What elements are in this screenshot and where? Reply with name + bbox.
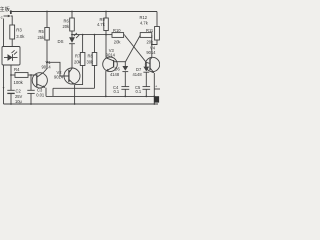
terminal nub left end of rail: [10, 10, 12, 14]
svg-text:R10: R10: [113, 28, 121, 33]
wire left vertical from connector to opto box: [3, 19, 5, 47]
svg-text:D7: D7: [136, 67, 142, 72]
capacitor C3: [27, 75, 34, 104]
wire bottom ground rail: [4, 103, 159, 105]
node dot C4 bottom: [124, 96, 126, 98]
node dot rail/R6: [71, 11, 73, 13]
svg-text:D6: D6: [115, 67, 121, 72]
wire drop to mid rail: [52, 88, 54, 96]
wire DS to V2 collector: [71, 44, 73, 69]
svg-text:20k: 20k: [147, 40, 155, 45]
node dot ground V4 emitter: [153, 103, 155, 105]
resistor R12: [152, 12, 160, 45]
wire opto box left pin to ground rail: [3, 65, 5, 104]
svg-text:3.0k: 3.0k: [16, 34, 25, 39]
node dot R8 top: [94, 34, 96, 36]
label R4 100k: [14, 67, 24, 85]
transistor V3: [103, 57, 126, 72]
node dot V3 emitter: [105, 96, 107, 98]
svg-text:20k: 20k: [74, 60, 82, 65]
resistor R6: [70, 12, 75, 35]
label C3 0.01: [36, 88, 45, 98]
node dot C3 junction: [30, 74, 32, 76]
node dot V2 emitter ground: [74, 103, 76, 105]
label C5 0.1: [135, 85, 142, 94]
resistor R9: [104, 12, 109, 58]
svg-text:9014: 9014: [106, 53, 116, 58]
svg-text:25k: 25k: [38, 35, 46, 40]
svg-text:0.1: 0.1: [136, 89, 142, 94]
svg-text:0.1: 0.1: [114, 89, 120, 94]
wire mid bias rail: [72, 34, 106, 36]
node dot V1 collector / V2 base: [46, 61, 48, 63]
node dot rail/R9: [105, 11, 107, 13]
svg-text:20k: 20k: [63, 24, 71, 29]
node dot ground C2: [10, 103, 12, 105]
transistor V4: [145, 57, 159, 73]
resistor R11: [140, 33, 152, 58]
node dot C2 junction: [10, 74, 12, 76]
label R9 4.7k: [97, 17, 106, 27]
svg-text:4148: 4148: [110, 72, 120, 77]
label R11 20k: [146, 28, 154, 44]
diode D6: [122, 62, 128, 87]
wire V3 emitter to mid ground rail: [105, 71, 107, 96]
svg-text:R5: R5: [39, 29, 45, 34]
wire V2 emitter to R7 bottom: [75, 66, 83, 85]
resistor R4: [11, 73, 34, 78]
wire mid ground rail: [46, 95, 154, 97]
svg-text:0.01: 0.01: [36, 93, 45, 98]
label R3 3.0k: [16, 28, 25, 39]
wire V1 collector to V2 base: [47, 62, 69, 76]
wire cross coupling R11 to D6/V3 base: [125, 35, 140, 62]
battery terminal mark right edge: [154, 84, 160, 102]
wire V2 emitter to ground rail: [74, 85, 76, 104]
svg-text:R7: R7: [75, 54, 81, 59]
svg-text:R12: R12: [140, 15, 148, 20]
label V1 9014: [42, 60, 52, 70]
svg-text:20k: 20k: [114, 40, 122, 45]
capacitor C2 electrolytic: [7, 75, 14, 104]
svg-text:4.7k: 4.7k: [140, 21, 149, 26]
wire emitter net to R8 bottom: [53, 87, 95, 89]
svg-text:c: c: [1, 14, 3, 19]
resistor R5: [45, 12, 50, 69]
node dot R12/V4 collector: [151, 44, 153, 46]
node dot DS top: [71, 34, 73, 36]
LED inside opto-coupler: [4, 50, 18, 61]
svg-text:4148: 4148: [133, 72, 143, 77]
opto-coupler U1 box: [2, 47, 20, 66]
svg-text:R8: R8: [88, 54, 94, 59]
svg-text:R11: R11: [146, 28, 154, 33]
transistor V2: [64, 68, 80, 85]
label C2 + 25V 10u: [2, 85, 22, 104]
svg-text:R4: R4: [14, 67, 20, 72]
resistor R7: [80, 35, 85, 66]
svg-text:30k: 30k: [87, 60, 95, 65]
LED DS: [69, 33, 79, 44]
resistor R8: [92, 35, 97, 89]
wire V4 emitter down right edge: [153, 73, 155, 104]
label R12 4.7k: [140, 15, 149, 26]
label D6 4148: [110, 67, 120, 78]
label R8 30k: [87, 54, 95, 65]
node dot R9 bottom junction: [105, 34, 107, 36]
svg-text:10μ: 10μ: [15, 99, 23, 104]
node dot V4 emitter mid rail: [153, 96, 155, 98]
node dot rail/R5: [46, 11, 48, 13]
wire top power rail: [11, 11, 158, 13]
label V4 9014: [146, 46, 156, 55]
label R7 20k: [74, 54, 82, 65]
svg-text:9014: 9014: [42, 65, 52, 70]
svg-text:R3: R3: [16, 28, 22, 33]
label R5 25k: [38, 29, 46, 40]
node dot ground C3: [30, 103, 32, 105]
node dot C5 bottom: [145, 96, 147, 98]
svg-text:9014: 9014: [54, 74, 64, 79]
wire V1 emitter down to mid rail: [45, 88, 47, 97]
label R6 20k: [63, 18, 71, 29]
capacitor C4: [121, 87, 129, 97]
svg-text:R6: R6: [64, 18, 70, 23]
transistor V1: [32, 69, 47, 88]
svg-text:9014: 9014: [146, 50, 156, 55]
diode D7: [143, 62, 149, 86]
label V2 9014: [54, 70, 64, 79]
label V3 9014: [106, 48, 116, 57]
capacitor C5: [143, 87, 151, 97]
resistor R3: [10, 16, 15, 47]
wire opto box right pin down to base net: [10, 65, 12, 75]
node dot R7 top: [82, 34, 84, 36]
svg-text:100k: 100k: [14, 80, 24, 85]
svg-text:主板: 主板: [0, 5, 11, 13]
label D7 4148: [133, 67, 143, 77]
connector arrow to mainboard: [4, 15, 12, 18]
svg-text:DS: DS: [58, 39, 64, 44]
svg-text:4.7k: 4.7k: [97, 22, 106, 27]
resistor R10: [106, 33, 125, 38]
node label 主板 (mainboard): [0, 5, 11, 19]
label C4 0.1: [113, 85, 120, 94]
svg-text:+: +: [2, 85, 5, 90]
label R10 20k: [113, 28, 121, 44]
wire cross coupling R10 to D7/V4 base: [125, 35, 147, 62]
svg-text:R9: R9: [100, 17, 106, 22]
